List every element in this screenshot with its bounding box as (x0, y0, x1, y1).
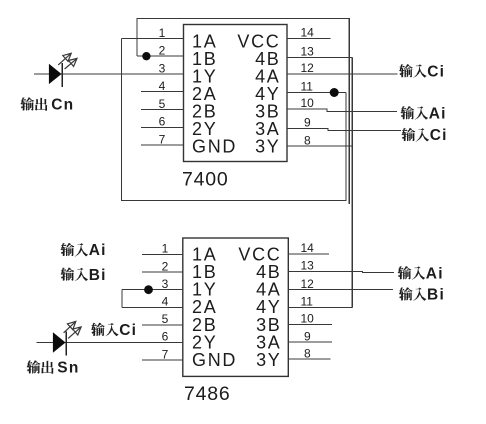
svg-text:1: 1 (162, 242, 169, 256)
svg-text:Sn: Sn (57, 360, 79, 377)
svg-text:10: 10 (301, 96, 315, 110)
U1 pin 7 wire (141, 144, 183, 146)
svg-text:3Y: 3Y (255, 137, 280, 157)
svg-text:4: 4 (162, 295, 169, 309)
svg-text:7: 7 (159, 132, 166, 146)
label input Ci (U1 pin 12) (399, 63, 445, 80)
wire loop: U1 pin 1 left down around bottom to pin 11 node (121, 38, 345, 200)
svg-text:9: 9 (304, 116, 311, 130)
U1 pin 3 wire (34, 73, 184, 75)
U1 pin 1 wire (121, 37, 183, 39)
svg-text:14: 14 (301, 26, 315, 40)
svg-text:3: 3 (162, 277, 169, 291)
svg-text:7400: 7400 (182, 169, 229, 191)
node: junction dot on pin 2 (142, 52, 150, 60)
wire: U2 pin 3 tied to pin 4 (121, 290, 123, 308)
U2 pin 1 wire (142, 254, 183, 256)
U1 pin 5 wire (141, 109, 183, 111)
LED D1 output Cn (49, 63, 62, 87)
svg-text:Ci: Ci (427, 63, 445, 80)
U2 pin 10 wire (288, 323, 332, 325)
U2 pin 2 wire (142, 271, 183, 273)
wire: LED D1 to U1 pin 3 (34, 73, 184, 75)
U1 left column pin names 1A 1B 1Y 2A 2B 2Y GND (192, 32, 237, 157)
U2 right column pin names VCC 4B 4A 4Y 3B 3A 3Y (238, 244, 281, 370)
svg-text:7: 7 (162, 347, 169, 361)
U2 pin 3 wire (122, 289, 183, 291)
svg-text:Ai: Ai (89, 242, 107, 259)
svg-text:12: 12 (301, 277, 315, 291)
svg-text:8: 8 (304, 346, 311, 360)
label input Ai (U2 pin 13) (398, 265, 444, 282)
U2 pin 9 wire (288, 341, 332, 343)
svg-text:13: 13 (301, 259, 315, 273)
IC U1 7400 body (184, 25, 288, 162)
D1 light arrow 2 (65, 58, 77, 69)
U1 pin 13 wire (287, 57, 352, 59)
label input Ai (U1 pin 10) (401, 105, 447, 122)
D1 light arrow 1 (58, 53, 71, 65)
U1 pin 4 wire (141, 91, 183, 93)
U2 pin 12 wire to input Bi (288, 289, 393, 291)
svg-text:4: 4 (159, 79, 166, 93)
U1 right column pin names VCC 4B 4A 4Y 3B 3A 3Y (237, 32, 280, 157)
svg-text:9: 9 (304, 329, 311, 343)
node: junction dot on U2 pin 3 (144, 285, 153, 294)
label output Cn (20, 97, 74, 114)
svg-text:Ai: Ai (429, 105, 447, 122)
wire: LED D2 to U2 pin 6 (36, 342, 183, 344)
svg-text:Ci: Ci (119, 322, 137, 339)
svg-text:Ci: Ci (430, 127, 448, 144)
svg-text:2: 2 (159, 44, 166, 58)
svg-text:6: 6 (159, 115, 166, 129)
svg-text:11: 11 (301, 295, 314, 309)
svg-text:Bi: Bi (427, 287, 445, 304)
svg-text:6: 6 (162, 330, 169, 344)
U2 pin 11 wire (288, 306, 352, 308)
IC U2 7486 body (183, 238, 288, 376)
svg-text:14: 14 (301, 241, 315, 255)
svg-text:GND: GND (192, 350, 237, 370)
svg-text:7486: 7486 (184, 383, 231, 405)
D2 light arrow 2 (68, 327, 81, 339)
U1 pin 9 wire to input Ci (287, 129, 401, 131)
U1 pin 14 wire (287, 38, 331, 40)
U1 pin 8 wire (287, 145, 352, 147)
U1 pin 6 wire (141, 126, 183, 128)
U2 pin 13 wire to input Ai (288, 271, 394, 274)
label input Bi (U2 pin 2) (61, 267, 107, 284)
label input Ci (U1 pin 9) (402, 127, 448, 144)
svg-text:1: 1 (159, 26, 166, 40)
svg-text:3Y: 3Y (256, 350, 281, 370)
LED D2 output Sn (53, 331, 66, 355)
svg-text:10: 10 (301, 312, 315, 326)
svg-text:2: 2 (162, 259, 169, 273)
svg-text:12: 12 (301, 61, 315, 75)
label input Ci (U2 pin 5) (91, 322, 137, 339)
svg-text:Ai: Ai (426, 265, 444, 282)
wire loop: U1 pin 2 up over top to right side (136, 19, 138, 57)
wire: U1 pin 13 down to U2 pin 11 (351, 58, 353, 308)
U1 pin 12 wire to input Ci (287, 73, 398, 75)
label input Ai (U2 pin 1) (61, 242, 107, 259)
svg-text:Bi: Bi (89, 267, 107, 284)
U2 pin 14 wire (288, 253, 329, 255)
svg-text:8: 8 (304, 133, 311, 147)
U1 pin 10 wire to input Ai (287, 109, 397, 111)
svg-text:3: 3 (159, 61, 166, 75)
U2 pin 4 wire (122, 306, 183, 308)
node: junction dot on pin 11 (330, 88, 339, 97)
svg-text:5: 5 (162, 312, 169, 326)
svg-text:5: 5 (159, 97, 166, 111)
U1 pin 2 wire (137, 55, 184, 57)
U2 left column pin names 1A 1B 1Y 2A 2B 2Y GND (192, 244, 237, 370)
U2 pin 5 wire (142, 324, 183, 326)
U1 pin 11 wire (287, 92, 346, 94)
label input Bi (U2 pin 12) (399, 287, 445, 304)
svg-text:Cn: Cn (51, 97, 74, 114)
D2 light arrow 1 (64, 321, 76, 332)
label output Sn (27, 360, 80, 377)
svg-text:13: 13 (301, 45, 315, 59)
U2 pin 7 wire (142, 359, 183, 361)
svg-text:11: 11 (301, 80, 314, 94)
svg-text:GND: GND (192, 137, 237, 157)
U2 pin 8 wire (288, 358, 330, 360)
U2 pin 6 wire (36, 342, 183, 344)
